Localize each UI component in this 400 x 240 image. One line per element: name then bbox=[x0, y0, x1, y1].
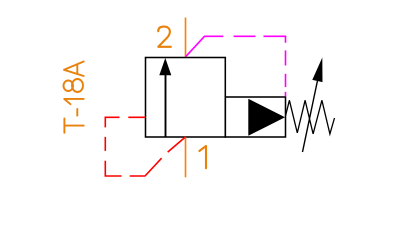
port 2 label bbox=[158, 27, 171, 47]
magenta pilot line dash 6 bbox=[285, 92, 287, 97]
red pilot line dash 6 bbox=[168, 137, 186, 152]
label T-18A bbox=[63, 62, 83, 133]
adjustment arrow line bbox=[303, 81, 318, 152]
flow arrow line bbox=[165, 73, 167, 137]
red pilot line dash 4 corner bbox=[105, 161, 121, 176]
red pilot line dash 3 bbox=[104, 137, 106, 151]
port 1 line bbox=[185, 137, 187, 177]
red pilot line dash 1 bbox=[128, 116, 145, 118]
check triangle bbox=[248, 99, 285, 136]
red pilot line dash 2 corner bbox=[105, 117, 119, 127]
port 1 label bbox=[199, 146, 206, 168]
adjustment arrow head bbox=[312, 58, 322, 83]
magenta pilot line dash 1 bend bbox=[186, 36, 223, 56]
magenta pilot line dash 4 bbox=[285, 50, 287, 65]
magenta pilot line dash 5 bbox=[285, 74, 287, 87]
red pilot line dash 5 bend bbox=[130, 158, 162, 176]
valve body bbox=[146, 58, 226, 138]
magenta pilot line dash 2 bbox=[234, 35, 256, 37]
magenta pilot line dash 3 corner bbox=[264, 36, 286, 43]
port 2 line bbox=[185, 18, 187, 58]
pilot box bbox=[225, 97, 285, 137]
flow arrow head bbox=[159, 58, 171, 75]
spring bbox=[286, 100, 335, 134]
